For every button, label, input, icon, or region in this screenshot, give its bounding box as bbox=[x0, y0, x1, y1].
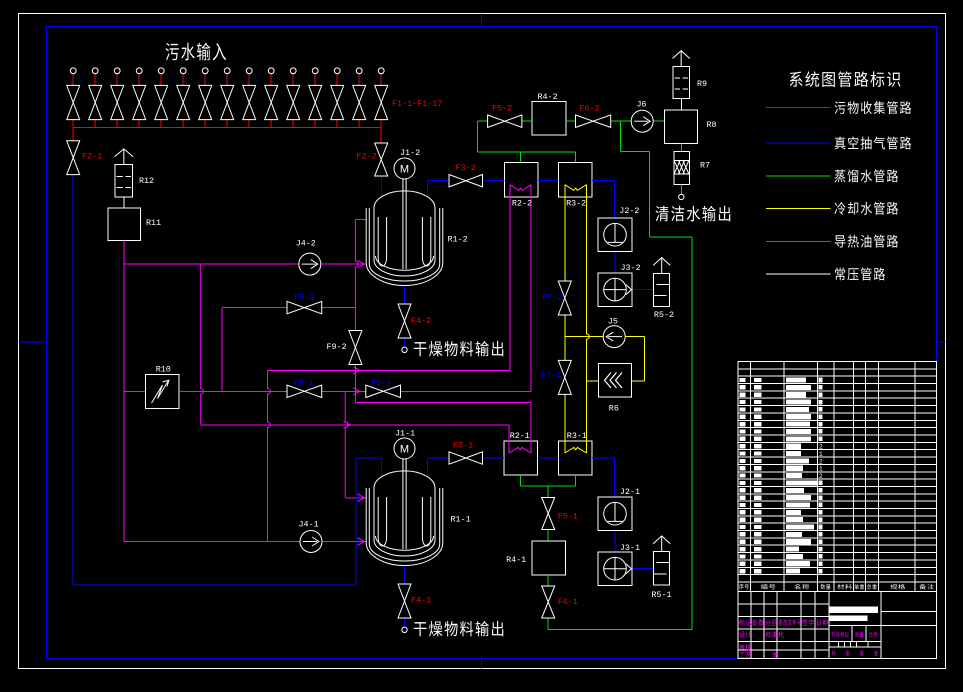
svg-text:M: M bbox=[400, 164, 409, 176]
svg-text:F3-2: F3-2 bbox=[456, 163, 476, 173]
svg-text:2: 2 bbox=[819, 458, 823, 465]
svg-text:2: 2 bbox=[819, 473, 823, 480]
svg-text:F2-2: F2-2 bbox=[357, 152, 377, 162]
svg-text:J2-2: J2-2 bbox=[619, 206, 639, 216]
svg-text:2: 2 bbox=[819, 444, 823, 451]
svg-text:F6-1: F6-1 bbox=[558, 597, 578, 607]
svg-text:R12: R12 bbox=[139, 176, 154, 186]
svg-text:1: 1 bbox=[819, 466, 823, 473]
svg-text:F4-1: F4-1 bbox=[411, 596, 431, 606]
svg-text:F7-2: F7-2 bbox=[542, 293, 562, 303]
svg-text:F2-1: F2-1 bbox=[82, 152, 102, 162]
svg-text:F3-1: F3-1 bbox=[453, 441, 473, 451]
svg-text:R5-2: R5-2 bbox=[654, 310, 674, 320]
svg-text:R1-1: R1-1 bbox=[451, 515, 471, 525]
svg-text:F7-1: F7-1 bbox=[541, 370, 561, 380]
svg-text:R10: R10 bbox=[156, 365, 171, 375]
svg-text:M: M bbox=[400, 444, 409, 456]
svg-text:J1-2: J1-2 bbox=[400, 148, 420, 158]
svg-text:R11: R11 bbox=[146, 218, 161, 228]
svg-text:F1-1~F1-17: F1-1~F1-17 bbox=[392, 99, 442, 109]
svg-text:J4-2: J4-2 bbox=[296, 239, 316, 249]
svg-text:J5: J5 bbox=[608, 317, 618, 327]
svg-text:F6-2: F6-2 bbox=[580, 104, 600, 114]
svg-text:J4-1: J4-1 bbox=[299, 520, 319, 530]
svg-text:1: 1 bbox=[819, 451, 823, 458]
svg-text:R1-2: R1-2 bbox=[448, 235, 468, 245]
svg-text:F8-1: F8-1 bbox=[294, 378, 314, 388]
svg-text:F5-1: F5-1 bbox=[558, 512, 578, 522]
svg-text:J3-2: J3-2 bbox=[621, 263, 641, 273]
svg-text:R2-1: R2-1 bbox=[510, 431, 530, 441]
svg-text:R3-2: R3-2 bbox=[566, 199, 586, 209]
svg-text:F4-2: F4-2 bbox=[411, 316, 431, 326]
svg-text:R7: R7 bbox=[700, 161, 710, 171]
svg-text:R2-2: R2-2 bbox=[512, 199, 532, 209]
svg-text:R9: R9 bbox=[697, 79, 707, 89]
svg-text:F8-2: F8-2 bbox=[294, 293, 314, 303]
svg-text:F9-1: F9-1 bbox=[371, 379, 391, 389]
svg-text:J6: J6 bbox=[637, 100, 647, 110]
svg-text:R8: R8 bbox=[707, 120, 717, 130]
svg-text:J3-1: J3-1 bbox=[620, 543, 640, 553]
svg-text:R4-2: R4-2 bbox=[538, 92, 558, 102]
svg-text:F5-2: F5-2 bbox=[492, 104, 512, 114]
svg-text:R5-1: R5-1 bbox=[651, 590, 671, 600]
svg-text:R6: R6 bbox=[609, 404, 619, 414]
svg-text:J1-1: J1-1 bbox=[395, 429, 415, 439]
svg-text:R4-1: R4-1 bbox=[506, 555, 526, 565]
svg-text:R3-1: R3-1 bbox=[567, 431, 587, 441]
svg-text:J2-1: J2-1 bbox=[620, 487, 640, 497]
svg-text:F9-2: F9-2 bbox=[327, 342, 347, 352]
